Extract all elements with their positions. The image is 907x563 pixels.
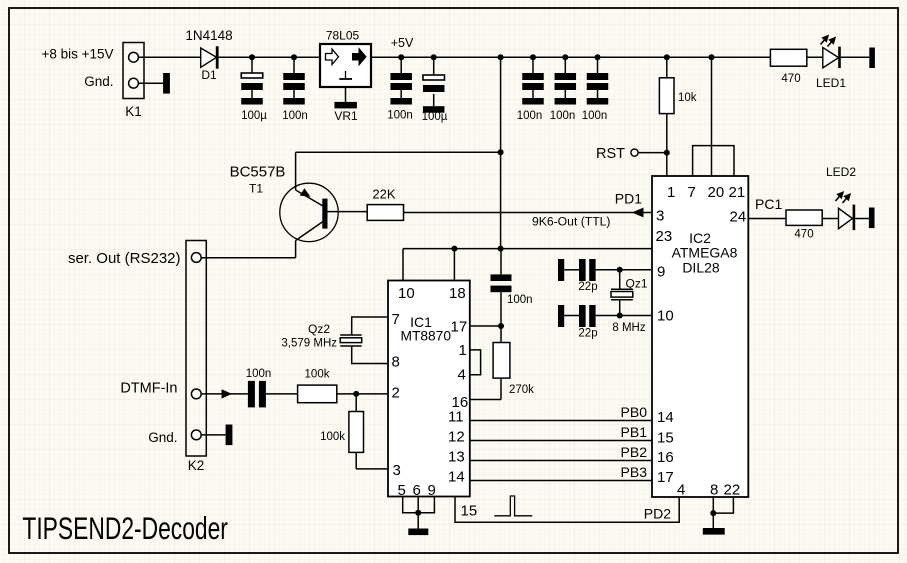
svg-text:PB2: PB2 <box>621 444 648 460</box>
svg-text:9K6-Out (TTL): 9K6-Out (TTL) <box>532 215 611 229</box>
svg-text:16: 16 <box>657 449 674 466</box>
svg-text:Gnd.: Gnd. <box>148 430 177 445</box>
svg-text:3: 3 <box>393 462 401 479</box>
svg-text:8: 8 <box>392 354 400 371</box>
svg-text:PB3: PB3 <box>621 464 648 480</box>
svg-text:18: 18 <box>449 285 466 302</box>
svg-text:PB0: PB0 <box>621 404 648 420</box>
svg-text:4: 4 <box>458 366 466 383</box>
svg-text:100n: 100n <box>387 110 413 122</box>
svg-text:22: 22 <box>724 482 741 499</box>
svg-text:PD1: PD1 <box>615 191 642 207</box>
svg-text:4: 4 <box>677 482 685 499</box>
svg-text:14: 14 <box>657 409 674 426</box>
svg-text:20: 20 <box>708 184 725 201</box>
svg-text:470: 470 <box>794 229 813 241</box>
svg-text:470: 470 <box>781 73 800 85</box>
svg-text:1: 1 <box>459 342 467 359</box>
svg-text:LED2: LED2 <box>826 165 856 179</box>
svg-text:100k: 100k <box>320 431 345 443</box>
svg-text:K1: K1 <box>125 104 142 119</box>
svg-text:TIPSEND2-Decoder: TIPSEND2-Decoder <box>22 510 228 546</box>
svg-text:ser. Out (RS232): ser. Out (RS232) <box>68 250 181 267</box>
svg-text:12: 12 <box>448 429 465 446</box>
svg-text:Qz2: Qz2 <box>308 322 330 336</box>
svg-text:3: 3 <box>656 208 664 225</box>
svg-text:22p: 22p <box>578 281 597 293</box>
svg-text:100n: 100n <box>507 294 533 306</box>
svg-text:PC1: PC1 <box>755 196 782 212</box>
svg-text:PB1: PB1 <box>621 424 648 440</box>
svg-text:100µ: 100µ <box>241 110 267 122</box>
svg-text:BC557B: BC557B <box>230 164 286 181</box>
svg-text:100n: 100n <box>246 368 272 380</box>
svg-text:10k: 10k <box>678 92 697 104</box>
svg-text:+8 bis +15V: +8 bis +15V <box>41 47 113 62</box>
svg-text:6: 6 <box>413 482 421 499</box>
svg-text:100n: 100n <box>517 110 543 122</box>
svg-text:5: 5 <box>398 482 406 499</box>
svg-text:15: 15 <box>461 503 478 520</box>
svg-text:LED1: LED1 <box>816 76 846 90</box>
svg-text:PD2: PD2 <box>644 506 671 522</box>
svg-text:13: 13 <box>448 449 465 466</box>
svg-text:3,579 MHz: 3,579 MHz <box>281 338 337 350</box>
svg-text:100n: 100n <box>582 110 608 122</box>
svg-text:Qz1: Qz1 <box>626 277 648 291</box>
svg-text:DIL28: DIL28 <box>682 260 720 276</box>
svg-text:14: 14 <box>448 469 465 486</box>
svg-text:1: 1 <box>667 184 675 201</box>
svg-text:ATMEGA8: ATMEGA8 <box>672 245 738 261</box>
svg-text:MT8870: MT8870 <box>401 328 452 344</box>
svg-text:24: 24 <box>730 209 747 226</box>
svg-text:11: 11 <box>448 409 464 426</box>
svg-text:DTMF-In: DTMF-In <box>120 381 177 397</box>
svg-text:100n: 100n <box>550 110 576 122</box>
svg-text:1N4148: 1N4148 <box>185 28 232 43</box>
svg-text:15: 15 <box>657 430 674 447</box>
svg-text:17: 17 <box>657 469 674 486</box>
svg-text:VR1: VR1 <box>334 109 358 123</box>
svg-text:T1: T1 <box>249 182 263 196</box>
svg-text:21: 21 <box>729 184 746 201</box>
svg-text:2: 2 <box>392 385 400 402</box>
svg-text:10: 10 <box>657 308 674 325</box>
svg-text:100n: 100n <box>282 110 308 122</box>
svg-text:17: 17 <box>451 319 468 336</box>
svg-text:100k: 100k <box>305 369 330 381</box>
svg-text:9: 9 <box>657 264 665 281</box>
svg-text:100µ: 100µ <box>422 111 448 123</box>
svg-text:K2: K2 <box>188 458 205 473</box>
svg-text:78L05: 78L05 <box>326 29 360 43</box>
svg-text:7: 7 <box>392 311 400 328</box>
svg-text:7: 7 <box>688 184 696 201</box>
svg-text:23: 23 <box>656 228 673 245</box>
svg-text:+5V: +5V <box>391 36 414 50</box>
svg-text:270k: 270k <box>509 384 534 396</box>
svg-text:D1: D1 <box>201 68 217 82</box>
svg-text:22K: 22K <box>372 187 395 202</box>
svg-text:8: 8 <box>710 482 718 499</box>
svg-text:RST: RST <box>596 146 625 162</box>
svg-text:10: 10 <box>398 285 415 302</box>
svg-text:22p: 22p <box>578 328 597 340</box>
svg-text:9: 9 <box>428 482 436 499</box>
svg-text:8 MHz: 8 MHz <box>612 322 645 334</box>
svg-text:Gnd.: Gnd. <box>84 74 113 89</box>
